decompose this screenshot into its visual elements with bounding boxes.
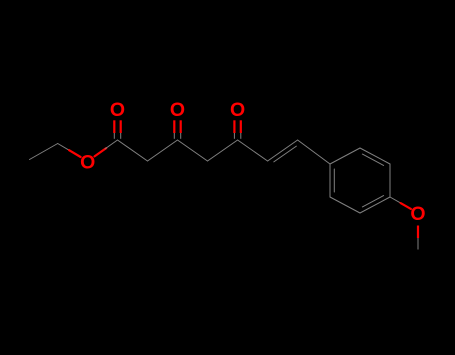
bond: C6=C7 vinyl double (second line)	[274, 146, 297, 162]
bond: C5-C6	[238, 140, 268, 161]
bond: ethyl CH3-CH2	[30, 144, 58, 160]
ring aromatic inner line A-B	[362, 154, 383, 165]
bond: C2-C3	[148, 140, 178, 161]
ring aromatic inner line E-F	[333, 169, 335, 192]
ring edge A-B top-right	[360, 148, 390, 164]
bond: C4-C5	[208, 140, 238, 161]
C5=O double bond (red pair)	[233, 120, 235, 133]
bond: OMe O-CH3 (oxygen half, red vertical)	[417, 226, 419, 239]
bond: C3-C4	[178, 140, 208, 161]
svg-text:O: O	[80, 151, 95, 173]
ring edge C-D bottom-right	[360, 197, 390, 213]
svg-text:O: O	[170, 99, 185, 121]
svg-text:O: O	[230, 99, 245, 121]
C1=O double bond (red pair)	[113, 120, 115, 133]
svg-text:O: O	[410, 203, 425, 225]
ring edge F-A top-left	[330, 148, 360, 164]
bond: C6=C7 vinyl double (main line)	[268, 140, 298, 161]
bond: C7-ring ipso	[298, 140, 330, 164]
bond: C1-C2	[118, 140, 148, 161]
bond: ester O-C1 (oxygen half, red)	[95, 148, 107, 156]
bond: ring C-OMe O (carbon half)	[390, 197, 402, 204]
ring aromatic inner line C-D	[362, 196, 383, 207]
bond: OMe O-CH3 (carbon half)	[417, 238, 419, 250]
bond: ring C-OMe O (oxygen half, red)	[401, 203, 411, 209]
C3=O double bond (red pair)	[173, 120, 175, 133]
ring edge D-E bottom-left	[330, 197, 360, 213]
ring edge B-C right vertical	[389, 164, 391, 197]
ring edge E-F left vertical	[329, 164, 331, 197]
bond: ethyl CH2-O ester (carbon half)	[58, 144, 71, 151]
bond: ester O-C1 (carbon half)	[105, 140, 118, 149]
svg-text:O: O	[110, 99, 125, 121]
bond: ethyl CH2-O ester (oxygen half, red)	[69, 150, 81, 157]
